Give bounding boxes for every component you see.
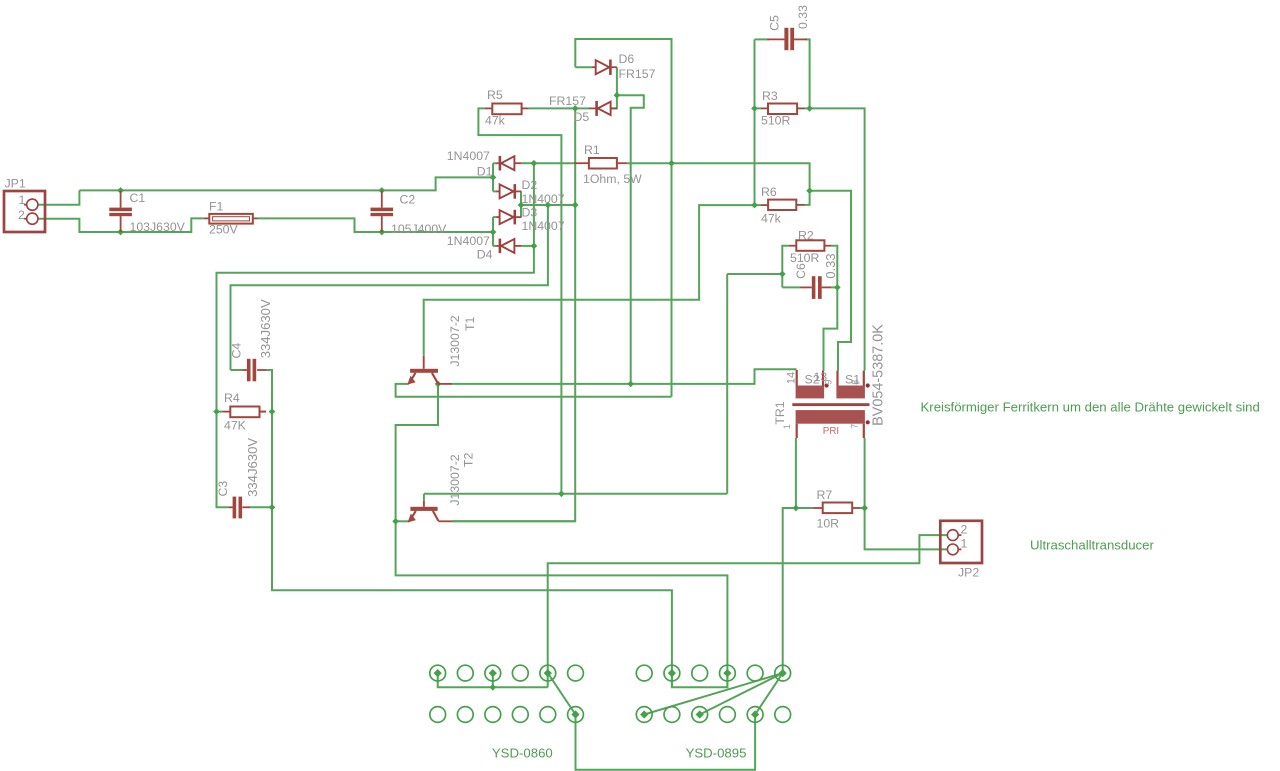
wire vertical T2 base riser bbox=[726, 274, 728, 494]
wire R6 right node to S1 left pin bbox=[810, 191, 851, 371]
svg-text:9: 9 bbox=[824, 380, 834, 385]
node R6 right bbox=[806, 187, 813, 194]
wire R4 left lead bbox=[217, 411, 223, 413]
wire net DC- to left column bbox=[217, 246, 534, 412]
lead D2 left bbox=[497, 190, 500, 192]
resistor R4 bbox=[230, 407, 259, 418]
wire D4 anode stub bbox=[493, 245, 497, 247]
pin JP2-2 stub bbox=[958, 534, 961, 536]
wire R2 left corner bbox=[782, 246, 789, 288]
lead R3 left bbox=[761, 107, 768, 109]
svg-text:C4: C4 bbox=[230, 343, 244, 359]
lead C4 right bbox=[257, 369, 266, 371]
node R4 right bbox=[269, 408, 276, 415]
lead D3 right bbox=[516, 216, 521, 218]
svg-text:S1: S1 bbox=[845, 372, 860, 386]
svg-text:1: 1 bbox=[782, 424, 792, 429]
svg-text:334J630V: 334J630V bbox=[245, 438, 260, 497]
lead C1 bottom bbox=[120, 216, 122, 232]
wire R6 right lead drop bbox=[805, 191, 810, 205]
svg-text:47k: 47k bbox=[485, 113, 506, 127]
svg-text:PRI: PRI bbox=[823, 426, 839, 437]
lead C2 top bbox=[381, 190, 383, 207]
svg-text:F1: F1 bbox=[209, 200, 224, 214]
lead R1 left bbox=[574, 162, 589, 164]
wire D3 anode stub bbox=[493, 216, 497, 218]
svg-text:47k: 47k bbox=[761, 211, 782, 225]
diode D1 bbox=[500, 156, 515, 171]
node C1 top bbox=[117, 187, 124, 194]
node T2 emitter bbox=[392, 518, 399, 525]
node D2/D3 cathode a bbox=[518, 202, 525, 209]
pin JP1-2 stub bbox=[24, 218, 27, 220]
diode D2 bbox=[500, 184, 515, 199]
svg-text:103J630V: 103J630V bbox=[130, 220, 186, 234]
node T1 collector bbox=[435, 381, 442, 388]
svg-text:BV054-5387.0K: BV054-5387.0K bbox=[871, 324, 887, 426]
node D4 cathode bbox=[531, 243, 538, 250]
wire T2 base branch to R2/C6 left bbox=[727, 273, 782, 275]
lead D6 left bbox=[592, 66, 596, 68]
svg-text:14: 14 bbox=[785, 372, 797, 384]
wire R5 right to D5 node bbox=[529, 107, 576, 109]
wire D2/D3 cathode horizontal bbox=[520, 204, 575, 206]
wire R1 right to R6 drop bbox=[627, 163, 810, 191]
svg-text:JP2: JP2 bbox=[958, 565, 979, 579]
lead F1 left bbox=[204, 217, 210, 219]
svg-text:R2: R2 bbox=[798, 228, 814, 242]
node D3/D4 anode bbox=[490, 229, 497, 236]
lead R2 right bbox=[824, 245, 831, 247]
lead C3 right bbox=[242, 506, 250, 508]
lead D1 right bbox=[514, 162, 521, 164]
resistor R6 bbox=[768, 200, 796, 210]
node D6/D5 bbox=[614, 92, 621, 99]
svg-text:1N4007: 1N4007 bbox=[522, 192, 565, 206]
diode D6 bbox=[596, 60, 611, 75]
lead C4 left bbox=[243, 369, 247, 371]
svg-text:R4: R4 bbox=[224, 391, 240, 405]
wire C3 right lead bbox=[250, 506, 272, 508]
lead D1 left bbox=[497, 162, 499, 164]
svg-text:T2: T2 bbox=[462, 453, 476, 468]
svg-text:C5: C5 bbox=[768, 15, 782, 31]
svg-text:J13007-2: J13007-2 bbox=[448, 454, 462, 505]
wire R5 left jog down bbox=[478, 108, 561, 493]
wire jog from D6/D5 node down to T1 collector bbox=[617, 95, 644, 384]
svg-text:D4: D4 bbox=[477, 248, 493, 262]
wire D1-D4 cathode vertical bbox=[533, 163, 535, 246]
wire diagonal YSD-0895 b bbox=[700, 673, 783, 714]
node R3 right bbox=[806, 105, 813, 112]
node C1 bottom bbox=[117, 229, 124, 236]
wire D6 cathode to D5 right bbox=[611, 67, 617, 108]
wire T2 base line bbox=[424, 493, 727, 495]
capacitor C2 bbox=[371, 208, 394, 217]
wire D6 top loop bbox=[575, 39, 671, 397]
node C2 top bbox=[378, 187, 385, 194]
svg-text:D2: D2 bbox=[522, 178, 538, 192]
svg-text:47K: 47K bbox=[224, 418, 247, 432]
diode D3 bbox=[500, 210, 515, 225]
svg-text:YSD-0860: YSD-0860 bbox=[492, 745, 553, 760]
wire T2 collector to D5 vertical bbox=[452, 520, 576, 522]
wire C6 left lead bbox=[782, 286, 800, 288]
wire R7 left to pad column bbox=[783, 508, 796, 673]
transistor T2 bbox=[408, 501, 452, 523]
wire R3 right to S1 right pin bbox=[810, 108, 865, 370]
node D2/D3 cathode b bbox=[545, 202, 552, 209]
svg-text:C1: C1 bbox=[130, 191, 146, 205]
wire R3 right lead bbox=[805, 107, 810, 109]
wire JP1 pin2 to bottom rail bbox=[38, 218, 203, 232]
lead R5 left bbox=[485, 107, 493, 109]
node pad L1 bbox=[434, 669, 442, 677]
lead R5 right bbox=[522, 107, 529, 109]
node D1/D2 anode bbox=[490, 174, 497, 181]
svg-text:10R: 10R bbox=[817, 516, 840, 530]
node pad bus bbox=[489, 684, 496, 691]
wire R7 left lead bbox=[796, 507, 813, 509]
node R2/C6 left bbox=[779, 271, 786, 278]
capacitor C1 bbox=[109, 208, 132, 217]
svg-text:Ultraschalltransducer: Ultraschalltransducer bbox=[1030, 537, 1154, 552]
wire C6 right lead to node bbox=[831, 286, 837, 288]
wire diagonal YSD-0860 bbox=[548, 673, 576, 714]
wire bottom U bbox=[576, 715, 756, 770]
node pad L3 bbox=[489, 669, 497, 677]
resistor R5 bbox=[492, 104, 521, 115]
wire C5 left lead bbox=[755, 38, 770, 40]
svg-text:C6: C6 bbox=[794, 263, 808, 279]
svg-text:R5: R5 bbox=[487, 88, 503, 102]
svg-text:FR157: FR157 bbox=[549, 94, 586, 108]
wire C5/R3 left column bbox=[754, 39, 756, 205]
wire TR1 pin7 down through R7 right to JP2 pin1 bbox=[865, 438, 948, 549]
node R6 left bbox=[751, 202, 758, 209]
svg-text:D3: D3 bbox=[522, 205, 538, 219]
node pad R6 bbox=[779, 669, 787, 677]
connector JP1 bbox=[4, 191, 45, 232]
svg-text:R3: R3 bbox=[762, 89, 778, 103]
node D2/D3 cathode c bbox=[572, 202, 579, 209]
svg-text:1: 1 bbox=[19, 193, 26, 207]
wire R1 left bbox=[534, 162, 574, 164]
capacitor C5 bbox=[784, 28, 794, 50]
node pad R7 bbox=[640, 710, 648, 718]
capacitor C4 bbox=[247, 359, 256, 382]
svg-text:D6: D6 bbox=[619, 52, 635, 66]
wire R7 right lead bbox=[860, 507, 865, 509]
wire C4 right corner bbox=[266, 370, 672, 687]
wire R2 right corner down bbox=[824, 246, 838, 371]
lead D3 left bbox=[497, 216, 500, 218]
svg-text:D5: D5 bbox=[574, 110, 590, 124]
wire R4 right lead bbox=[260, 411, 267, 413]
lead R4 left bbox=[222, 411, 230, 413]
wire pad stub YSD-0860 pad3 bbox=[492, 673, 494, 687]
lead R1 right bbox=[617, 162, 627, 164]
wire D3-D4 anode vertical bbox=[492, 217, 494, 246]
wire D5 left lead bbox=[575, 107, 589, 109]
node D5 left bbox=[572, 105, 579, 112]
wire D6 anode stub bbox=[575, 66, 592, 68]
fuse F1 bbox=[209, 214, 253, 224]
wire T2 base stub bbox=[423, 494, 425, 501]
diode D5 bbox=[597, 101, 611, 116]
svg-text:TR1: TR1 bbox=[773, 401, 787, 424]
lead D4 left bbox=[497, 245, 499, 247]
node D1 cathode R1 bbox=[531, 160, 538, 167]
wire C5 right corner to R3 right bbox=[805, 39, 810, 108]
wire R6 left to T1 base bbox=[424, 205, 755, 356]
wire top rail (net N1) bbox=[79, 177, 493, 190]
wire diagonal YSD-0895 a bbox=[644, 673, 783, 714]
svg-text:0.33: 0.33 bbox=[796, 5, 810, 29]
lead R6 right bbox=[796, 204, 805, 206]
transformer TR1 bbox=[792, 370, 870, 438]
node R7 right bbox=[861, 505, 868, 512]
wire D4 cathode stub bbox=[521, 245, 534, 247]
wire JP2 pin2 jog bbox=[548, 535, 948, 687]
svg-text:334J630V: 334J630V bbox=[258, 299, 273, 358]
node T1 collector line bbox=[627, 381, 634, 388]
wire D2/D3 node to C4 left bbox=[231, 205, 548, 370]
node pad R9 bbox=[696, 710, 704, 718]
wire pad YSD-0860 row1 bus bbox=[438, 673, 548, 687]
wire JP1 pin1 to top rail bbox=[38, 190, 79, 204]
node pad R4 bbox=[723, 669, 731, 677]
lead R7 right bbox=[852, 507, 860, 509]
svg-text:7: 7 bbox=[850, 424, 860, 429]
svg-text:R1: R1 bbox=[584, 143, 600, 157]
svg-text:JP1: JP1 bbox=[5, 176, 26, 190]
node T2 base line bbox=[558, 490, 565, 497]
wire T1 emitter line bbox=[396, 384, 672, 397]
node C2 bottom bbox=[378, 229, 385, 236]
wire T1 collector down to T2 emitter and pad bbox=[396, 384, 728, 687]
lead R4 right bbox=[260, 411, 267, 413]
svg-text:1N4007: 1N4007 bbox=[447, 149, 490, 163]
node pad R2 bbox=[668, 669, 676, 677]
wire D1 cathode to R1 node bbox=[521, 162, 534, 164]
svg-text:1Ohm, 5W: 1Ohm, 5W bbox=[583, 172, 642, 186]
svg-text:T1: T1 bbox=[463, 316, 477, 331]
wire R6 left lead bbox=[755, 204, 761, 206]
lead C2 bottom bbox=[381, 216, 383, 232]
lead C6 left bbox=[800, 286, 812, 288]
pin JP1-1 stub bbox=[24, 204, 27, 206]
lead C3 left bbox=[229, 506, 233, 508]
wire D5-left vertical down to T2 collector bbox=[452, 108, 576, 521]
node C3 right bbox=[269, 504, 276, 511]
node pad R11 bbox=[751, 710, 759, 718]
lead F1 right bbox=[253, 217, 258, 219]
wire T2 emitter stub bbox=[396, 520, 410, 522]
svg-text:YSD-0895: YSD-0895 bbox=[686, 745, 747, 760]
node R4 left bbox=[213, 408, 220, 415]
node C6 right bbox=[834, 284, 841, 291]
lead C5 right bbox=[794, 38, 807, 40]
svg-text:0.33: 0.33 bbox=[823, 253, 838, 278]
lead D5 right bbox=[610, 107, 617, 109]
transistor T1 bbox=[407, 356, 452, 385]
wire TR1 pin1 down to R7 left bbox=[795, 438, 797, 508]
wire D1 anode stub bbox=[493, 162, 497, 164]
lead R2 left bbox=[789, 245, 796, 247]
svg-text:1N4007: 1N4007 bbox=[522, 219, 565, 233]
svg-text:105J400V: 105J400V bbox=[391, 222, 447, 236]
capacitor C6 bbox=[812, 276, 822, 299]
node pad L12 bbox=[571, 710, 579, 718]
resistor R1 bbox=[589, 158, 617, 169]
lead R3 right bbox=[797, 107, 805, 109]
lead C6 right bbox=[822, 286, 831, 288]
lead D5 left bbox=[589, 107, 596, 109]
svg-text:J13007-2: J13007-2 bbox=[448, 315, 462, 366]
svg-text:510R: 510R bbox=[790, 251, 820, 265]
svg-text:510R: 510R bbox=[761, 114, 791, 128]
node R1 right bbox=[668, 160, 675, 167]
svg-text:1: 1 bbox=[961, 537, 968, 551]
wire R3 left lead bbox=[755, 107, 762, 109]
lead D6 right bbox=[612, 66, 617, 68]
pad array YSD-0895 bbox=[636, 665, 790, 722]
resistor R2 bbox=[796, 240, 824, 251]
pad array YSD-0860 bbox=[430, 665, 584, 722]
pin JP2-1 stub bbox=[958, 548, 961, 550]
wire D2 anode stub bbox=[493, 190, 497, 192]
connector JP2 bbox=[940, 521, 982, 563]
wire C4 left lead bbox=[231, 369, 243, 371]
svg-text:FR157: FR157 bbox=[619, 67, 656, 81]
svg-text:1N4007: 1N4007 bbox=[447, 234, 490, 248]
resistor R7 bbox=[823, 503, 853, 514]
svg-text:2: 2 bbox=[961, 523, 968, 537]
node R7 left bbox=[793, 505, 800, 512]
lead R6 left bbox=[761, 204, 768, 206]
wire F1 right to bottom rail bbox=[258, 218, 494, 232]
svg-text:C2: C2 bbox=[400, 193, 416, 207]
svg-text:R7: R7 bbox=[817, 488, 833, 502]
svg-text:C3: C3 bbox=[216, 481, 230, 497]
wire D2 cathode drop / D3 cathode rise bbox=[520, 191, 522, 217]
svg-text:2: 2 bbox=[18, 208, 25, 222]
lead C5 left bbox=[767, 38, 784, 40]
lead D4 right bbox=[514, 245, 521, 247]
svg-text:D1: D1 bbox=[477, 165, 493, 179]
svg-text:S2: S2 bbox=[805, 372, 820, 386]
node pad L5 bbox=[544, 669, 552, 677]
diode D4 bbox=[500, 239, 515, 254]
wire T1 collector line to TR1 pin14 bbox=[452, 369, 797, 384]
wire diagonal YSD-0895 c bbox=[755, 673, 783, 714]
svg-text:R6: R6 bbox=[761, 185, 777, 199]
lead C1 top bbox=[120, 190, 122, 207]
wire pad YSD-0895 row1 bus bbox=[672, 673, 728, 687]
wire D1-D2 anode vertical bbox=[492, 163, 494, 191]
lead D2 right bbox=[516, 190, 521, 192]
lead R7 left bbox=[813, 507, 823, 509]
node R3 left bbox=[751, 105, 758, 112]
svg-text:Kreisförmiger Ferritkern um de: Kreisförmiger Ferritkern um den alle Drä… bbox=[921, 399, 1260, 414]
wire C3 column left bbox=[217, 412, 229, 508]
svg-text:250V: 250V bbox=[209, 223, 239, 237]
capacitor C3 bbox=[233, 497, 243, 519]
resistor R3 bbox=[768, 104, 797, 115]
